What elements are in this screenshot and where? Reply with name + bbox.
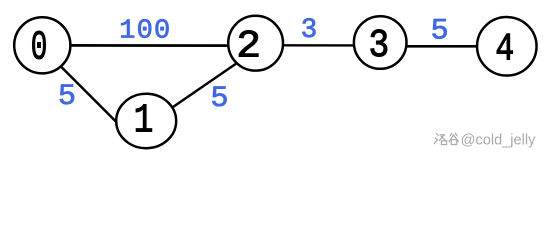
svg-text:5: 5 xyxy=(58,80,76,114)
watermark char 谷 xyxy=(449,133,458,144)
node 3 digit xyxy=(368,24,389,69)
node 2 circle xyxy=(228,16,283,71)
svg-text:100: 100 xyxy=(119,17,171,47)
node 1 circle xyxy=(116,94,176,148)
wire edge 0-1 xyxy=(58,63,123,128)
wire edge 0-2 xyxy=(58,44,242,47)
node 1 digit xyxy=(134,99,154,145)
node 3 circle xyxy=(354,16,407,69)
svg-text:3: 3 xyxy=(301,15,318,46)
svg-text:3: 3 xyxy=(368,24,389,69)
node 0 digit xyxy=(31,25,48,72)
svg-text:@cold_jelly: @cold_jelly xyxy=(461,133,537,149)
node 4 circle xyxy=(477,17,537,76)
weight 100 zero dot 2 xyxy=(161,28,164,31)
svg-text:5: 5 xyxy=(210,82,228,116)
wire edge 3-4 xyxy=(398,45,482,48)
wire edge 1-2 xyxy=(167,59,243,111)
svg-text:5: 5 xyxy=(431,15,449,49)
svg-text:4: 4 xyxy=(495,27,514,72)
svg-text:1: 1 xyxy=(134,99,154,145)
svg-text:2: 2 xyxy=(236,25,261,69)
node 0 circle xyxy=(14,17,70,73)
node 4 digit xyxy=(495,27,514,72)
weight 100 zero dot 1 xyxy=(143,28,146,31)
svg-text:0: 0 xyxy=(31,25,48,72)
watermark char 洛 xyxy=(434,134,446,145)
node 0 zero dot xyxy=(38,43,40,45)
wire edge 2-3 xyxy=(272,44,362,47)
node 2 digit xyxy=(236,25,261,69)
